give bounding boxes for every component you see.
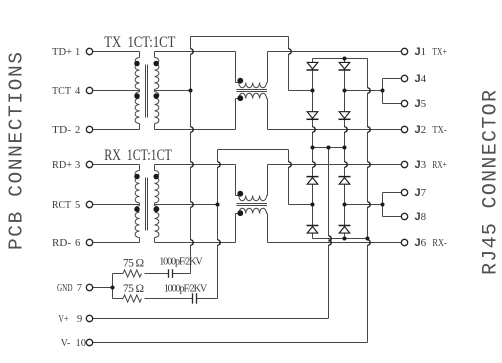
diode D8 RX right lower <box>339 226 351 234</box>
svg-text:J3: J3 <box>415 159 427 171</box>
pin terminal J7 <box>401 189 407 195</box>
svg-text:RX+: RX+ <box>432 160 446 171</box>
wire vertical J7-J8 bracket <box>382 193 384 217</box>
wire RX middle row left <box>289 204 313 206</box>
pin terminal RCT 5 <box>86 201 92 207</box>
svg-text:RX-: RX- <box>432 238 447 249</box>
wire hop gaps <box>189 49 369 245</box>
resistor R1 75 ohm <box>123 270 141 277</box>
label RX transformer title <box>104 147 172 164</box>
resistor R2 75 ohm <box>123 295 141 302</box>
svg-text:1000pF/2KV: 1000pF/2KV <box>164 284 208 295</box>
svg-text:TX-: TX- <box>432 125 447 136</box>
wire J2 line <box>268 129 402 131</box>
wire diode column right x=344 <box>344 59 346 239</box>
pin label RD- 6 <box>52 238 80 249</box>
label C1 value 1000pF/2KV <box>159 256 203 267</box>
pin terminal J4 <box>401 75 407 81</box>
transformer RX primary winding <box>135 165 139 243</box>
junction V+ bus right <box>343 146 347 150</box>
junction TX mid left column <box>311 89 315 93</box>
pin terminal J2 <box>401 126 407 132</box>
junction TX mid right column <box>343 89 347 93</box>
svg-text:4: 4 <box>75 86 81 97</box>
junction V+ bus center <box>327 146 331 150</box>
wire vertical J4-J5 bracket <box>382 79 384 104</box>
diode D2 TX right upper <box>339 62 351 70</box>
choke TX phase dots <box>237 78 243 101</box>
svg-text:RCT: RCT <box>52 200 72 211</box>
junction TX mid J4/J5 <box>381 89 385 93</box>
wire vertical RX tap riser x=218 <box>217 150 219 299</box>
svg-text:J8: J8 <box>415 211 427 223</box>
label PCB CONNECTIONS (left, rotated) <box>6 52 28 250</box>
svg-text:J5: J5 <box>415 98 427 110</box>
pin terminal GND 7 <box>86 284 92 290</box>
wire TX middle row right <box>345 90 383 92</box>
wire vertical RX-over drop x=288 <box>288 150 290 205</box>
pin label J7 <box>415 187 427 199</box>
pin terminal TD+ 1 <box>86 48 92 54</box>
wire vertical TX-over drop x=288 <box>288 37 290 91</box>
wire J1 line <box>268 51 402 53</box>
wire vertical V- rail x=367 <box>367 59 369 343</box>
choke RX core <box>237 204 268 206</box>
junction RX bottom bus V- <box>366 237 370 241</box>
svg-text:J7: J7 <box>415 187 427 199</box>
wire TX middle row left <box>289 90 313 92</box>
svg-text:5: 5 <box>75 200 80 211</box>
wire RX diode bottom bus <box>313 238 368 240</box>
svg-text:RJ45 CONNECTOR: RJ45 CONNECTOR <box>480 90 502 275</box>
pin terminal J8 <box>401 213 407 219</box>
junction GND node <box>111 286 115 290</box>
wire TX over-route top <box>191 36 289 38</box>
choke TX core <box>237 90 268 92</box>
capacitor C2 1000pF/2KV <box>193 293 197 303</box>
transformer TX primary winding <box>135 52 139 130</box>
pin label RD+ 3 <box>52 160 80 171</box>
junction V+ bus left <box>311 146 315 150</box>
junction TX tap node <box>189 89 193 93</box>
svg-text:V-: V- <box>61 338 71 349</box>
svg-text:9: 9 <box>77 314 82 325</box>
pin terminal TCT 4 <box>86 87 92 93</box>
wire TX secondary bottom to choke <box>155 129 236 131</box>
pin label GND 7 <box>57 283 82 294</box>
junction TX top bus right column <box>343 57 347 61</box>
wire upper RC branch <box>113 273 191 275</box>
svg-text:6: 6 <box>75 238 80 249</box>
wire vertical V+ rail x=328 <box>328 148 330 319</box>
wire V+ row <box>93 318 329 320</box>
wire TD+ row <box>93 51 140 53</box>
svg-text:J1: J1 <box>415 46 427 58</box>
wire RX secondary tap <box>155 204 218 206</box>
svg-text:RD-: RD- <box>52 238 72 249</box>
wire vertical TX tap riser x=190 <box>190 37 192 274</box>
wire J5 stub <box>383 103 402 105</box>
wire RCT row <box>93 204 140 206</box>
label RJ45 CONNECTOR (right, rotated) <box>480 90 502 275</box>
svg-text:2: 2 <box>75 125 80 136</box>
pin label J6 RX- <box>415 237 448 249</box>
wire RX secondary bottom to choke <box>155 242 236 244</box>
svg-text:TX+: TX+ <box>432 47 446 58</box>
wire diode column left x=312 <box>312 59 314 239</box>
pin terminal V- 10 <box>86 339 92 345</box>
choke RX lower coil <box>236 208 268 242</box>
wire RX over-route top <box>218 149 289 151</box>
wire TD- row <box>93 129 140 131</box>
pin terminal RD- 6 <box>86 239 92 245</box>
wire TX secondary tap <box>155 90 191 92</box>
svg-text:RD+: RD+ <box>52 160 72 171</box>
wire V+ bus <box>313 147 345 149</box>
svg-text:J2: J2 <box>415 124 427 136</box>
wire TCT row <box>93 90 140 92</box>
pin label J3 RX+ <box>415 159 447 171</box>
pin terminal RD+ 3 <box>86 161 92 167</box>
diode D5 RX left upper <box>307 177 319 185</box>
transformer TX phase dots <box>134 61 159 99</box>
wire lower RC branch <box>113 298 218 300</box>
svg-text:TCT: TCT <box>52 86 72 97</box>
junction RX mid left column <box>311 203 315 207</box>
wire J8 stub <box>383 216 402 218</box>
svg-text:J6: J6 <box>415 237 427 249</box>
svg-text:GND: GND <box>57 283 73 294</box>
pin label J1 TX+ <box>415 46 447 58</box>
junction RX bottom bus right column <box>343 237 347 241</box>
wire vertical GND riser x=112 <box>112 274 114 299</box>
pin label V- 10 <box>61 338 86 349</box>
capacitor C1 1000pF/2KV <box>169 269 173 278</box>
wire RD- row <box>93 242 140 244</box>
transformer TX core <box>146 65 148 118</box>
pin label TD+ 1 <box>52 47 80 58</box>
junction RX tap node <box>216 203 220 207</box>
pin terminal TD- 2 <box>86 126 92 132</box>
choke TX upper coil <box>236 52 268 88</box>
svg-text:75 Ω: 75 Ω <box>123 283 144 295</box>
diode D6 RX right upper <box>339 177 351 185</box>
pin label TD- 2 <box>52 125 80 136</box>
label R1 value 75 ohm <box>123 258 144 270</box>
choke RX upper coil <box>236 165 268 201</box>
pin label J8 <box>415 211 427 223</box>
label C2 value 1000pF/2KV <box>164 284 208 295</box>
pin terminal J3 <box>401 161 407 167</box>
wire J7 stub <box>383 192 402 194</box>
pin terminal J1 <box>401 48 407 54</box>
pin terminal J5 <box>401 100 407 106</box>
svg-text:TD-: TD- <box>52 125 72 136</box>
pin label J2 TX- <box>415 124 448 136</box>
pin terminal J6 <box>401 239 407 245</box>
transformer RX phase dots <box>134 174 159 212</box>
label TX transformer title <box>104 34 175 51</box>
wire RD+ row <box>93 164 140 166</box>
wire V- row <box>93 342 368 344</box>
wire TX diode top bus <box>313 58 368 60</box>
svg-text:1: 1 <box>75 47 80 58</box>
diode D4 TX right lower <box>339 112 351 120</box>
svg-text:PCB CONNECTIONS: PCB CONNECTIONS <box>6 52 28 250</box>
wire J4 stub <box>383 78 402 80</box>
svg-text:1000pF/2KV: 1000pF/2KV <box>159 256 203 267</box>
junction RX mid right column <box>343 203 347 207</box>
label R2 value 75 ohm <box>123 283 144 295</box>
wire TX secondary top to choke <box>155 51 236 53</box>
svg-text:V+: V+ <box>58 314 68 325</box>
wire GND stub <box>93 287 113 289</box>
svg-text:RX 1CT:1CT: RX 1CT:1CT <box>104 147 172 164</box>
wire J3 line <box>268 164 402 166</box>
svg-text:7: 7 <box>77 283 82 294</box>
wire J6 line <box>268 242 402 244</box>
svg-text:75 Ω: 75 Ω <box>123 258 144 270</box>
svg-text:3: 3 <box>75 160 80 171</box>
wire RX middle row right <box>345 204 383 206</box>
transformer TX secondary winding <box>155 52 159 130</box>
wire hop arcs <box>191 49 371 245</box>
transformer RX secondary winding <box>155 165 159 243</box>
choke TX lower coil <box>236 93 268 129</box>
pin label J5 <box>415 98 427 110</box>
choke RX phase dots <box>237 191 243 216</box>
svg-text:10: 10 <box>76 338 87 349</box>
pin label V+ 9 <box>58 314 82 325</box>
transformer RX core <box>146 178 148 231</box>
svg-text:TX 1CT:1CT: TX 1CT:1CT <box>104 34 175 51</box>
svg-text:J4: J4 <box>415 73 427 85</box>
diode D7 RX left lower <box>307 226 319 234</box>
pin label TCT 4 <box>52 86 81 97</box>
wire RX secondary top to choke <box>155 164 236 166</box>
junction RX mid J7/J8 <box>381 203 385 207</box>
diode D3 TX left lower <box>307 112 319 120</box>
pin label RCT 5 <box>52 200 80 211</box>
pin terminal V+ 9 <box>86 315 92 321</box>
svg-text:TD+: TD+ <box>52 47 72 58</box>
diode D1 TX left upper <box>307 62 319 70</box>
pin label J4 <box>415 73 427 85</box>
